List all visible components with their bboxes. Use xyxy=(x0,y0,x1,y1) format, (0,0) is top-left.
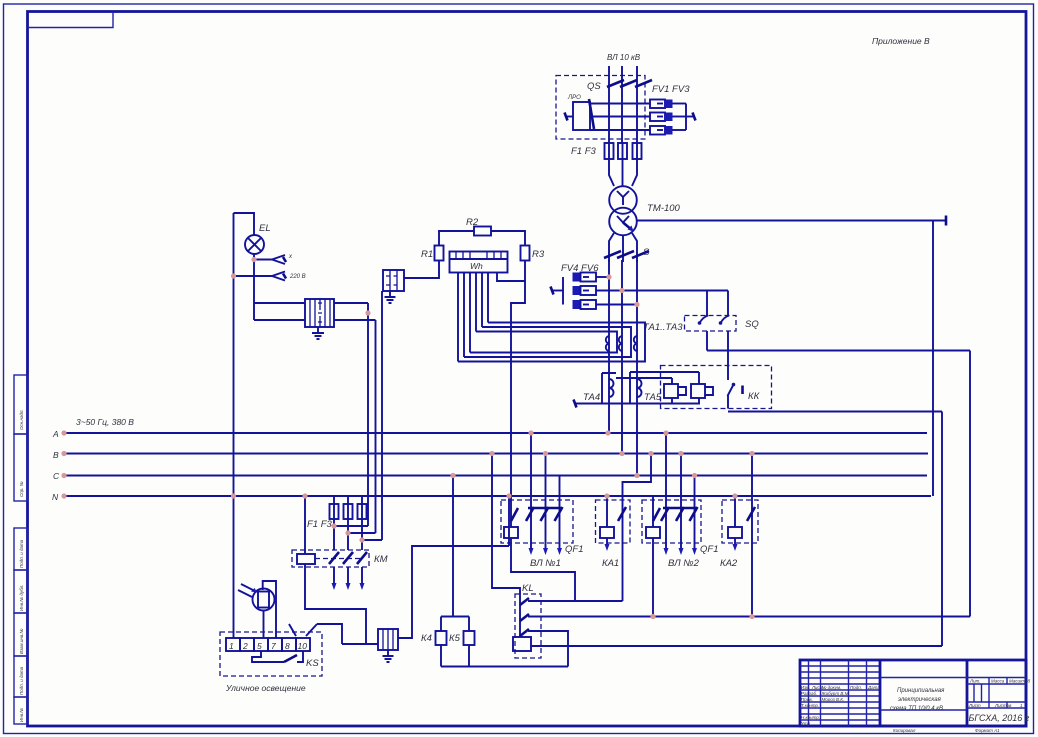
QF1-2 trip bar xyxy=(663,507,697,510)
KK contact xyxy=(728,383,743,409)
fuse outputs to taps xyxy=(334,519,382,550)
svg-text:Принципиальная: Принципиальная xyxy=(897,688,945,694)
KA1 coil xyxy=(600,496,614,551)
KM contact 2 xyxy=(343,552,353,564)
svg-text:В: В xyxy=(53,450,59,460)
svg-text:Инв.№ дубл.: Инв.№ дубл. xyxy=(19,585,24,611)
wire phase3 HV drop xyxy=(636,66,638,86)
TA3 winding xyxy=(634,336,637,351)
control row 3 wire xyxy=(528,631,568,667)
svg-text:Дата: Дата xyxy=(867,685,880,690)
ground under T3 xyxy=(383,650,394,662)
KM coil xyxy=(297,496,315,564)
S blade pole3 xyxy=(632,251,649,258)
wire KK output to right riser 2 xyxy=(728,411,942,413)
svg-text:С: С xyxy=(53,471,60,481)
wire fuses to transformer xyxy=(609,159,614,186)
QS blade pole1 xyxy=(607,80,624,87)
QF1-2 release coil xyxy=(646,496,660,617)
svg-text:Разраб.: Разраб. xyxy=(801,691,817,696)
wire bus N to terminal 1 xyxy=(233,496,235,638)
ground under T1 xyxy=(312,327,324,339)
svg-text:F1 F3: F1 F3 xyxy=(307,519,333,530)
svg-text:Подп. и дата: Подп. и дата xyxy=(19,539,24,568)
QF1-1 coil loop to KL row1 xyxy=(511,538,575,601)
ground under T2 xyxy=(385,291,396,303)
fuse F1 lower xyxy=(330,496,339,519)
svg-text:F1 F3: F1 F3 xyxy=(571,146,597,157)
svg-text:Лист: Лист xyxy=(968,703,981,708)
wire phase1 HV drop xyxy=(608,66,610,86)
isolation unit T1 (hatched box) xyxy=(305,299,334,327)
wire phase3 QS to fuse xyxy=(636,86,638,143)
door switch SQ dashed box xyxy=(685,316,737,332)
svg-text:ТА5: ТА5 xyxy=(644,392,662,403)
svg-text:10: 10 xyxy=(298,641,308,651)
wire phase2 QS to fuse xyxy=(621,86,623,143)
QF1-1 contact pole3 xyxy=(555,476,563,544)
left margin stamp box 7 xyxy=(14,697,28,724)
wire phase3 LV down to bus C xyxy=(636,260,638,476)
SQ contact 1 xyxy=(698,291,708,351)
arrester FV5 xyxy=(573,286,597,295)
svg-text:8: 8 xyxy=(285,641,290,651)
fuse F2 xyxy=(618,143,627,159)
svg-text:№ докум.: № докум. xyxy=(822,685,842,690)
svg-text:Пров.: Пров. xyxy=(801,697,813,702)
wire T1 out row1 xyxy=(334,302,368,304)
isolation unit T3 (hatched box) xyxy=(342,629,398,650)
SQ contact 2 xyxy=(719,291,729,381)
svg-text:ТМ-100: ТМ-100 xyxy=(647,203,681,214)
svg-text:EL: EL xyxy=(259,223,271,234)
wire sensor to terminal 7 xyxy=(263,581,276,638)
K4K5 top tie xyxy=(441,616,469,618)
KK heater feed from TA4 xyxy=(616,377,661,379)
svg-text:Изм. Лист: Изм. Лист xyxy=(801,685,824,690)
control row 2 wire xyxy=(528,616,970,618)
TA2 secondary loop xyxy=(464,327,631,357)
LRO drive box xyxy=(573,102,590,130)
wire secondary drops xyxy=(609,233,637,262)
wire terminal V to unit T3 xyxy=(317,624,342,644)
KK heater bottom tie xyxy=(664,398,700,404)
svg-text:КК: КК xyxy=(748,391,761,402)
TA2 winding xyxy=(619,336,622,351)
svg-text:Приложение В: Приложение В xyxy=(872,36,930,46)
left margin stamp box 2 xyxy=(14,434,28,501)
wire phase2 HV drop xyxy=(621,66,623,86)
svg-text:Лит.: Лит. xyxy=(969,679,981,684)
KL contact 2 xyxy=(520,614,529,621)
wire tap vertical b xyxy=(375,320,377,533)
svg-text:R3: R3 xyxy=(532,249,545,260)
svg-text:Подп. и дата: Подп. и дата xyxy=(19,666,24,695)
wire phase1 LV down to bus A xyxy=(608,260,610,433)
Wh neutral lead to bus N xyxy=(497,273,525,496)
svg-text:ТА4: ТА4 xyxy=(583,392,600,403)
K4K5 feed from bus C xyxy=(452,476,454,617)
svg-text:ТА1..ТА3: ТА1..ТА3 xyxy=(643,322,683,333)
QF1-1 contact pole1 xyxy=(526,433,534,543)
TA1 secondary loop xyxy=(470,332,617,353)
wire lamp branch down xyxy=(253,260,255,321)
S blade pole2 xyxy=(617,251,634,258)
riser from feeder down to N end xyxy=(932,221,934,497)
left margin stamp box 5 xyxy=(14,613,28,656)
QF1-1 output arrows xyxy=(529,543,563,555)
svg-text:Т.контр.: Т.контр. xyxy=(801,703,819,708)
disconnector QS dashed box xyxy=(556,76,645,140)
svg-text:К4: К4 xyxy=(421,633,432,644)
wire sensor to terminal xyxy=(263,611,265,639)
title block texts xyxy=(801,679,1030,734)
svg-text:х: х xyxy=(288,254,293,260)
fuse F3 xyxy=(633,143,642,159)
svg-text:схема ТП 10/0,4 кВ: схема ТП 10/0,4 кВ xyxy=(890,706,943,712)
svg-text:KL: KL xyxy=(522,583,534,594)
TA3 secondary loop xyxy=(458,323,645,362)
svg-text:ЛРО: ЛРО xyxy=(567,95,581,101)
svg-text:Мороз В.К.: Мороз В.К. xyxy=(822,697,845,702)
QF1-2 contact pole2 xyxy=(676,454,684,544)
KA2 coil xyxy=(728,496,742,551)
title block frame xyxy=(800,660,1026,726)
svg-text:1: 1 xyxy=(229,641,234,651)
left margin stamp box 6 xyxy=(14,656,28,697)
svg-text:КМ: КМ xyxy=(374,554,388,565)
svg-text:R1: R1 xyxy=(421,249,433,260)
svg-text:Wh: Wh xyxy=(470,261,483,271)
svg-text:QF1: QF1 xyxy=(565,544,583,555)
breaker QF1 (line 1) dashed box xyxy=(501,500,573,543)
top-left stamp box xyxy=(28,12,114,28)
svg-text:QF1: QF1 xyxy=(700,544,718,555)
fuse F3 lower xyxy=(358,496,367,519)
KM coil bottom loop to unit T3 xyxy=(305,564,366,644)
terminal squares 1 2 5 7 8 10 xyxy=(226,638,310,651)
LRO row3 link xyxy=(590,129,650,131)
svg-text:ВЛ №2: ВЛ №2 xyxy=(668,558,700,569)
wire KL coil right to riser 2 xyxy=(531,645,942,647)
svg-text:Утв.: Утв. xyxy=(801,721,811,726)
KK heater element 2 xyxy=(644,372,713,398)
svg-text:Спр. №: Спр. № xyxy=(19,481,24,497)
LRO left lead with tick xyxy=(566,116,573,118)
svg-text:3~50 Гц, 380 В: 3~50 Гц, 380 В xyxy=(76,417,134,427)
KK heater element 1 xyxy=(661,378,687,398)
voltage unit T2 box xyxy=(383,270,404,291)
svg-text:KS: KS xyxy=(306,658,319,669)
svg-text:К5: К5 xyxy=(449,633,461,644)
K4K5 bottom tie xyxy=(441,666,568,668)
wire phase2 LV down to bus B xyxy=(621,260,623,454)
KL coil xyxy=(513,637,531,651)
wire lamp to unit T1 bottom xyxy=(254,319,305,321)
KM mech link dashes xyxy=(315,558,362,560)
svg-text:ВЛ 10 кВ: ВЛ 10 кВ xyxy=(607,53,641,62)
QF1-2 contact pole3 xyxy=(690,476,698,544)
left margin stamp box 1 xyxy=(14,375,28,434)
svg-text:Подп.: Подп. xyxy=(850,685,862,690)
svg-text:БГСХА, 2016 г: БГСХА, 2016 г xyxy=(969,713,1030,723)
KA1 contact with jog from bus B xyxy=(618,454,651,602)
LRO lever blade xyxy=(589,99,594,129)
relay KL dashed box xyxy=(515,594,541,658)
svg-text:Инв.№: Инв.№ xyxy=(19,708,24,722)
feeder end tick xyxy=(945,216,948,226)
left margin stamp box 3 xyxy=(14,528,28,570)
KM contact 3 xyxy=(357,552,367,564)
secondary feeder wire to right xyxy=(637,220,946,222)
KS switch xyxy=(252,651,303,662)
svg-text:QS: QS xyxy=(587,81,601,92)
QF1-1 trip bar xyxy=(528,507,562,510)
svg-text:Н.контр.: Н.контр. xyxy=(801,715,820,720)
svg-text:ВЛ №1: ВЛ №1 xyxy=(530,558,561,569)
svg-text:А: А xyxy=(52,429,59,439)
contactor KM dashed box xyxy=(292,550,369,567)
wire R3 down xyxy=(524,261,526,282)
svg-text:Формат А1: Формат А1 xyxy=(975,728,1000,733)
FV left common wire with tick xyxy=(551,277,564,305)
TA1 winding xyxy=(606,336,609,351)
KL contact 3 xyxy=(520,629,529,636)
wire phase1 QS to fuse xyxy=(608,86,610,143)
svg-text:КА2: КА2 xyxy=(720,558,738,569)
arrester FV2 xyxy=(650,113,686,122)
breaker QF1 (line 2) dashed box xyxy=(642,500,701,543)
svg-text:Осн.надп.: Осн.надп. xyxy=(19,409,24,430)
svg-text:Копировал: Копировал xyxy=(893,728,916,733)
wire lamp to unit T1 top xyxy=(254,302,305,304)
wire N branch down xyxy=(508,496,510,546)
svg-text:N: N xyxy=(52,492,59,502)
wire R2 to R3 xyxy=(491,231,525,246)
QF1-2 output arrows xyxy=(664,543,698,555)
svg-text:SQ: SQ xyxy=(745,319,759,330)
svg-text:1: 1 xyxy=(1020,703,1023,708)
KM load arrows xyxy=(332,567,365,590)
svg-text:FV1 FV3: FV1 FV3 xyxy=(652,84,690,95)
QS blade pole3 xyxy=(635,80,652,87)
svg-text:Уличное освещение: Уличное освещение xyxy=(225,683,306,693)
arrester FV3 xyxy=(650,126,686,135)
QS blade pole2 xyxy=(620,80,637,87)
svg-text:электрическая: электрическая xyxy=(898,697,942,703)
photo sensor BL xyxy=(238,584,275,611)
KM contact 1 xyxy=(329,552,339,564)
wire KL feed from bus B xyxy=(492,454,520,597)
control row 1 wire xyxy=(528,600,623,602)
wire T1 out row2 xyxy=(334,319,376,321)
QF1-1 contact pole2 xyxy=(541,454,549,544)
svg-text:Масштаб: Масштаб xyxy=(1009,679,1030,684)
V feed wires to terminals xyxy=(289,624,317,636)
svg-text:7: 7 xyxy=(271,641,276,651)
arrester FV4 xyxy=(573,273,610,282)
QF1-1 release coil xyxy=(504,496,518,538)
wire SQ output to right riser xyxy=(707,350,970,352)
QF1-2 contact pole1 xyxy=(661,433,669,543)
wire tap vertical c xyxy=(381,291,383,540)
wire T2 to R1 xyxy=(404,261,439,279)
LRO row2 link xyxy=(590,116,650,118)
svg-text:Взам.инв.№: Взам.инв.№ xyxy=(19,629,24,654)
Wh current leads staircase xyxy=(457,273,459,362)
svg-text:КА1: КА1 xyxy=(602,558,619,569)
svg-text:2: 2 xyxy=(242,641,248,651)
svg-text:Жибурт В.М.: Жибурт В.М. xyxy=(821,691,850,696)
FV common right wire with tick xyxy=(686,104,696,131)
svg-text:5: 5 xyxy=(257,641,262,651)
S blade pole1 xyxy=(604,251,621,258)
KL contact 1 xyxy=(520,596,529,637)
left margin stamp box 4 xyxy=(14,570,28,613)
thermal relay KK dashed box xyxy=(661,366,772,409)
arrester FV6 xyxy=(573,300,638,309)
fuse F2 lower xyxy=(344,496,353,519)
wire R1 to R2 xyxy=(439,231,474,246)
riser control supply right xyxy=(969,351,971,617)
KA2 contact xyxy=(747,454,755,617)
terminal strip KS dashed box xyxy=(220,632,322,676)
svg-text:Масса: Масса xyxy=(991,679,1005,684)
svg-text:220 В: 220 В xyxy=(289,274,306,280)
relay KA1 dashed box xyxy=(596,500,631,543)
wire T3 right loop to bus N xyxy=(398,546,509,638)
svg-text:Листов: Листов xyxy=(994,703,1012,708)
wire FV5 row to SQ feed xyxy=(596,290,728,292)
wire EL main drop to bus N xyxy=(233,213,235,496)
LRO row1 link xyxy=(590,103,650,105)
wire tap vertical a xyxy=(367,303,369,526)
relay KA2 dashed box xyxy=(722,500,758,543)
riser control right 2 xyxy=(941,412,943,647)
